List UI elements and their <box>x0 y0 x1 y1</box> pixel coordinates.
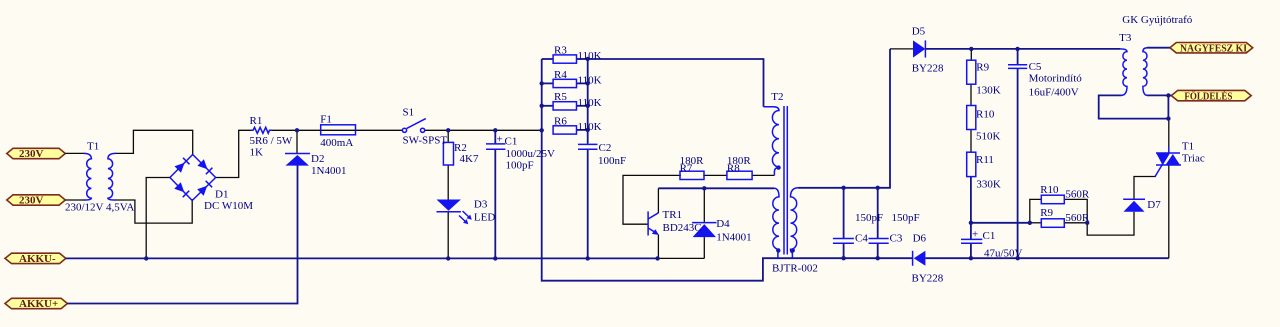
svg-text:560R: 560R <box>1065 189 1090 201</box>
svg-text:D7: D7 <box>1147 199 1161 211</box>
svg-text:D1: D1 <box>215 189 228 201</box>
svg-text:T1: T1 <box>1182 141 1194 153</box>
svg-text:230/12V 4,5VA: 230/12V 4,5VA <box>65 202 134 214</box>
svg-text:100pF: 100pF <box>506 160 534 172</box>
svg-text:R10: R10 <box>976 109 995 121</box>
svg-text:R6: R6 <box>554 116 567 128</box>
svg-text:230V: 230V <box>19 148 44 160</box>
svg-text:C2: C2 <box>599 142 612 154</box>
svg-text:1K: 1K <box>250 147 264 159</box>
svg-text:AKKU-: AKKU- <box>19 253 56 265</box>
svg-text:230V: 230V <box>19 195 44 207</box>
svg-text:47u/50V: 47u/50V <box>984 248 1023 260</box>
svg-text:R1: R1 <box>250 115 263 127</box>
svg-text:4K7: 4K7 <box>460 153 479 165</box>
svg-text:C4: C4 <box>855 233 868 245</box>
svg-text:T2: T2 <box>771 91 783 103</box>
svg-text:FÖLDELÉS: FÖLDELÉS <box>1184 89 1232 102</box>
svg-text:150pF: 150pF <box>855 212 883 224</box>
svg-text:+: + <box>497 134 503 146</box>
svg-text:BD243C: BD243C <box>663 222 702 234</box>
svg-text:TR1: TR1 <box>663 209 683 221</box>
svg-text:R3: R3 <box>554 45 567 57</box>
svg-text:BY228: BY228 <box>912 63 944 75</box>
svg-text:D3: D3 <box>474 199 488 211</box>
svg-text:C1: C1 <box>505 136 518 148</box>
svg-text:D5: D5 <box>912 26 926 38</box>
svg-text:100nF: 100nF <box>598 155 626 167</box>
svg-text:D6: D6 <box>913 233 927 245</box>
svg-text:T3: T3 <box>1119 32 1132 44</box>
svg-text:C5: C5 <box>1029 61 1042 73</box>
svg-text:1N4001: 1N4001 <box>311 165 346 177</box>
svg-text:S1: S1 <box>403 107 415 119</box>
svg-text:R5: R5 <box>554 91 567 103</box>
svg-text:D2: D2 <box>311 153 324 165</box>
svg-text:R9: R9 <box>976 62 989 74</box>
svg-text:F1: F1 <box>320 114 332 126</box>
svg-text:110K: 110K <box>578 50 602 62</box>
svg-text:330K: 330K <box>976 179 1001 191</box>
svg-text:GK Gyújtótrafó: GK Gyújtótrafó <box>1122 14 1192 26</box>
svg-text:C1: C1 <box>983 230 996 242</box>
svg-text:T1: T1 <box>87 141 99 153</box>
svg-text:D4: D4 <box>716 218 730 230</box>
svg-text:510K: 510K <box>976 131 1001 143</box>
svg-text:R4: R4 <box>554 69 567 81</box>
svg-text:R10: R10 <box>1040 184 1059 196</box>
svg-text:5R6 / 5W: 5R6 / 5W <box>250 135 293 147</box>
svg-text:16uF/400V: 16uF/400V <box>1029 87 1079 99</box>
svg-text:BJTR-002: BJTR-002 <box>772 263 818 275</box>
svg-text:R9: R9 <box>1040 207 1053 219</box>
svg-text:+: + <box>972 229 978 241</box>
svg-text:R7: R7 <box>680 162 693 174</box>
svg-text:R8: R8 <box>727 162 740 174</box>
svg-text:NAGYFESZ KI: NAGYFESZ KI <box>1180 42 1247 54</box>
svg-text:110K: 110K <box>578 74 602 86</box>
svg-text:C3: C3 <box>890 233 903 245</box>
svg-text:BY228: BY228 <box>912 273 944 285</box>
svg-text:150pF: 150pF <box>892 212 920 224</box>
svg-text:400mA: 400mA <box>320 137 353 149</box>
svg-text:110K: 110K <box>578 121 602 133</box>
svg-text:SW-SPST: SW-SPST <box>403 135 448 147</box>
svg-text:1000u/25V: 1000u/25V <box>506 148 556 160</box>
svg-text:R11: R11 <box>976 154 994 166</box>
svg-text:AKKU+: AKKU+ <box>19 298 58 310</box>
svg-text:130K: 130K <box>976 85 1001 97</box>
svg-text:560R: 560R <box>1065 212 1090 224</box>
svg-text:1N4001: 1N4001 <box>716 232 751 244</box>
svg-text:DC W10M: DC W10M <box>204 200 253 212</box>
svg-text:Motorindító: Motorindító <box>1029 73 1083 85</box>
svg-text:LED: LED <box>474 212 495 224</box>
svg-text:Triac: Triac <box>1182 153 1205 165</box>
svg-text:110K: 110K <box>578 97 602 109</box>
